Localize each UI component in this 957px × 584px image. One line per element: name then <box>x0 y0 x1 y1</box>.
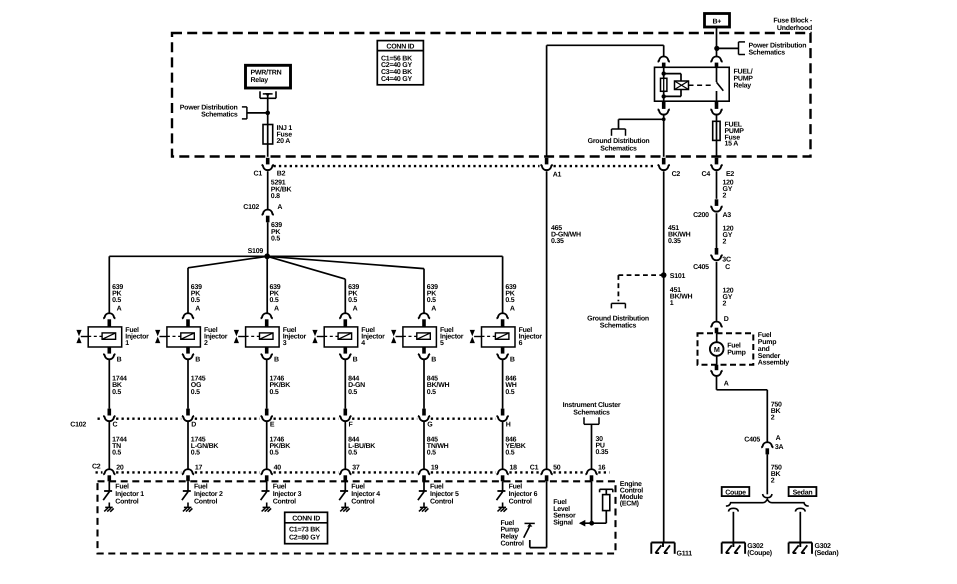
svg-text:A: A <box>776 435 781 442</box>
svg-text:Schematics: Schematics <box>573 408 610 416</box>
svg-text:1: 1 <box>125 340 129 347</box>
svg-text:0.5: 0.5 <box>505 450 514 457</box>
svg-text:16: 16 <box>598 464 606 471</box>
svg-text:and: and <box>758 345 770 353</box>
svg-text:A: A <box>277 204 282 211</box>
svg-text:C2: C2 <box>92 463 101 470</box>
svg-text:0.8: 0.8 <box>271 193 280 200</box>
svg-text:0.35: 0.35 <box>551 238 564 245</box>
svg-text:Fuel: Fuel <box>758 331 772 339</box>
svg-text:2: 2 <box>771 415 775 422</box>
svg-text:2: 2 <box>204 340 208 347</box>
svg-text:2: 2 <box>723 193 727 200</box>
svg-text:PUMP: PUMP <box>734 76 754 83</box>
svg-text:C4=40 GY: C4=40 GY <box>381 76 412 83</box>
svg-text:Injector 6: Injector 6 <box>509 490 538 498</box>
svg-text:19: 19 <box>431 464 439 471</box>
svg-text:S101: S101 <box>670 273 686 280</box>
svg-text:C2: C2 <box>672 171 681 178</box>
svg-text:A: A <box>274 306 279 313</box>
svg-text:B2: B2 <box>277 170 286 177</box>
svg-text:A: A <box>724 381 729 388</box>
svg-text:0.35: 0.35 <box>596 449 609 456</box>
svg-text:Fuel: Fuel <box>351 483 365 491</box>
svg-text:Fuel: Fuel <box>727 341 741 349</box>
svg-text:Fuel: Fuel <box>194 483 208 491</box>
svg-text:0.5: 0.5 <box>112 389 121 396</box>
svg-text:Coupe: Coupe <box>725 489 746 496</box>
svg-text:Schematics: Schematics <box>749 49 786 57</box>
svg-text:Fuse Block -: Fuse Block - <box>773 17 813 25</box>
svg-text:G111: G111 <box>677 551 693 558</box>
svg-text:0.5: 0.5 <box>348 297 357 304</box>
svg-text:C405: C405 <box>744 437 760 444</box>
svg-text:Injector 2: Injector 2 <box>194 490 223 498</box>
svg-text:B: B <box>117 356 122 363</box>
svg-text:4: 4 <box>361 340 365 347</box>
svg-text:(ECM): (ECM) <box>620 500 639 508</box>
svg-text:G302: G302 <box>747 543 763 550</box>
svg-text:0.5: 0.5 <box>348 389 357 396</box>
svg-text:18: 18 <box>510 464 518 471</box>
svg-text:Fuel: Fuel <box>115 483 129 491</box>
svg-text:PWR/TRN: PWR/TRN <box>251 68 282 76</box>
svg-text:Assembly: Assembly <box>758 359 789 367</box>
svg-text:Control: Control <box>501 540 524 548</box>
svg-text:C: C <box>113 422 118 429</box>
svg-text:A1: A1 <box>553 172 562 179</box>
svg-text:CONN ID: CONN ID <box>386 44 414 51</box>
svg-text:B: B <box>274 356 279 363</box>
svg-text:H: H <box>506 422 511 429</box>
svg-text:Injector 3: Injector 3 <box>273 490 302 498</box>
svg-text:G302: G302 <box>815 543 831 550</box>
svg-text:D: D <box>191 422 196 429</box>
svg-text:Instrument Cluster: Instrument Cluster <box>563 401 621 409</box>
svg-text:0.35: 0.35 <box>668 238 681 245</box>
svg-text:A: A <box>353 306 358 313</box>
svg-text:Control: Control <box>115 498 138 506</box>
svg-text:S109: S109 <box>248 248 264 255</box>
svg-text:Relay: Relay <box>734 82 752 90</box>
svg-text:0.5: 0.5 <box>270 450 279 457</box>
svg-text:Fuel: Fuel <box>501 519 515 527</box>
svg-text:3A: 3A <box>775 444 784 451</box>
svg-text:50: 50 <box>553 464 561 471</box>
svg-text:40: 40 <box>274 464 282 471</box>
svg-text:Underhood: Underhood <box>777 24 812 32</box>
svg-text:Ground Distribution: Ground Distribution <box>588 137 650 145</box>
svg-text:B: B <box>510 356 515 363</box>
svg-text:0.5: 0.5 <box>270 389 279 396</box>
svg-text:15 A: 15 A <box>725 141 739 148</box>
svg-text:Sender: Sender <box>758 352 781 360</box>
svg-text:A: A <box>117 306 122 313</box>
svg-text:A: A <box>431 306 436 313</box>
svg-text:Injector 5: Injector 5 <box>430 490 459 498</box>
svg-text:6: 6 <box>519 340 523 347</box>
svg-text:0.5: 0.5 <box>270 297 279 304</box>
svg-text:Power Distribution: Power Distribution <box>180 104 238 112</box>
svg-text:5: 5 <box>440 340 444 347</box>
svg-text:C: C <box>725 264 730 271</box>
svg-text:Control: Control <box>194 498 217 506</box>
svg-text:0.5: 0.5 <box>427 389 436 396</box>
svg-text:1: 1 <box>670 300 674 307</box>
svg-text:0.5: 0.5 <box>112 297 121 304</box>
svg-text:C405: C405 <box>693 264 709 271</box>
svg-text:Control: Control <box>273 498 296 506</box>
svg-text:0.5: 0.5 <box>427 450 436 457</box>
svg-text:Control: Control <box>430 498 453 506</box>
svg-text:2: 2 <box>723 300 727 307</box>
svg-text:0.5: 0.5 <box>505 389 514 396</box>
svg-text:Control: Control <box>509 498 532 506</box>
svg-text:A3: A3 <box>723 212 732 219</box>
svg-text:0.5: 0.5 <box>191 450 200 457</box>
svg-text:0.5: 0.5 <box>191 297 200 304</box>
svg-text:B: B <box>431 356 436 363</box>
svg-text:A: A <box>510 306 515 313</box>
svg-text:CONN ID: CONN ID <box>292 516 320 523</box>
svg-text:0.5: 0.5 <box>112 450 121 457</box>
svg-text:0.5: 0.5 <box>191 389 200 396</box>
svg-text:Fuel: Fuel <box>273 483 287 491</box>
svg-text:20 A: 20 A <box>277 138 291 145</box>
svg-text:Control: Control <box>351 498 374 506</box>
svg-text:G: G <box>427 422 433 429</box>
svg-text:Relay: Relay <box>251 76 269 84</box>
svg-text:37: 37 <box>352 464 360 471</box>
svg-text:D: D <box>724 316 729 323</box>
svg-text:Fuel: Fuel <box>509 483 523 491</box>
svg-text:3C: 3C <box>722 257 731 264</box>
svg-text:Signal: Signal <box>553 518 573 526</box>
svg-text:E: E <box>270 422 275 429</box>
svg-text:C2=80 GY: C2=80 GY <box>289 535 320 542</box>
svg-text:20: 20 <box>116 464 124 471</box>
svg-text:C1: C1 <box>530 464 539 471</box>
svg-text:E2: E2 <box>726 171 734 178</box>
svg-text:2: 2 <box>723 238 727 245</box>
svg-text:B: B <box>353 356 358 363</box>
svg-text:A: A <box>195 306 200 313</box>
svg-text:Ground Distribution: Ground Distribution <box>587 314 649 322</box>
svg-text:Power Distribution: Power Distribution <box>749 42 807 50</box>
svg-text:(Coupe): (Coupe) <box>747 549 772 557</box>
svg-text:Fuel: Fuel <box>430 483 444 491</box>
svg-text:C1: C1 <box>254 170 263 177</box>
svg-text:0.5: 0.5 <box>348 450 357 457</box>
svg-text:0.5: 0.5 <box>271 235 280 242</box>
svg-text:Injector 4: Injector 4 <box>351 490 380 498</box>
svg-text:Schematics: Schematics <box>201 111 238 119</box>
svg-text:FUEL/: FUEL/ <box>734 68 753 76</box>
svg-text:Sedan: Sedan <box>793 488 813 496</box>
svg-text:C4: C4 <box>702 171 711 178</box>
svg-text:17: 17 <box>195 464 203 471</box>
svg-text:C1=73 BK: C1=73 BK <box>289 527 320 534</box>
svg-text:Injector 1: Injector 1 <box>115 490 144 498</box>
svg-text:0.5: 0.5 <box>427 297 436 304</box>
svg-text:0.5: 0.5 <box>505 297 514 304</box>
svg-text:3: 3 <box>283 340 287 347</box>
svg-text:B: B <box>195 356 200 363</box>
svg-text:M: M <box>714 345 720 354</box>
svg-text:(Sedan): (Sedan) <box>815 549 839 557</box>
svg-text:C200: C200 <box>693 212 709 219</box>
svg-text:C102: C102 <box>70 422 86 429</box>
svg-text:B+: B+ <box>712 19 721 26</box>
svg-text:Schematics: Schematics <box>600 145 637 153</box>
svg-text:Pump: Pump <box>727 349 745 356</box>
svg-text:C102: C102 <box>243 204 259 211</box>
svg-text:Relay: Relay <box>501 533 519 541</box>
svg-text:2: 2 <box>771 477 775 484</box>
svg-text:Schematics: Schematics <box>600 322 637 330</box>
